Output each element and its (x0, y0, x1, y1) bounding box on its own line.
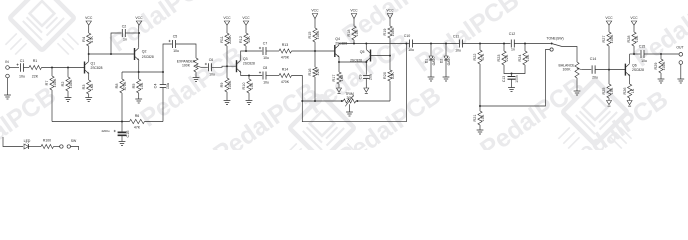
junction C16 node (121, 121, 123, 123)
wire Q6 collector to C15 (630, 53, 641, 55)
svg-text:100K: 100K (182, 63, 191, 67)
ground IN sleeve (4, 95, 11, 99)
wire R100 to SW (54, 146, 60, 148)
wire C5 to pot (176, 44, 196, 58)
ground R3 (85, 98, 92, 102)
resistor R25 (602, 70, 614, 101)
capacitor C5 (169, 35, 179, 54)
wire SW out (71, 147, 79, 151)
ground arrow C9 (364, 88, 369, 92)
wire C8 to R14 (266, 75, 279, 77)
ground R21 (477, 130, 484, 134)
svg-text:10K: 10K (635, 35, 639, 42)
svg-text:C6: C6 (209, 58, 214, 62)
resistor R6 (130, 114, 145, 130)
wire trim rail right (356, 100, 390, 102)
transistor Q4 (335, 37, 348, 58)
svg-text:100K: 100K (662, 61, 666, 70)
capacitor C12 (509, 32, 515, 52)
wire Q3 collector to C7 (246, 50, 262, 52)
svg-text:10K: 10K (140, 82, 144, 89)
capacitor C14 (590, 57, 598, 80)
wire Q2 collector to VCC (138, 25, 140, 48)
svg-text:R13: R13 (282, 43, 288, 47)
svg-text:100K: 100K (391, 27, 395, 36)
wire R14 to detour rail (292, 44, 407, 122)
ground R2 (65, 98, 72, 102)
wire R6 to C4 (145, 121, 164, 123)
svg-text:10K: 10K (526, 54, 530, 61)
capacitor C10 (404, 34, 414, 52)
wire Q1 collector to Q2 base (89, 53, 135, 55)
svg-text:100K: 100K (563, 68, 572, 72)
resistor R21 (473, 106, 485, 130)
capacitor C1 (17, 59, 26, 79)
svg-text:1K: 1K (631, 88, 635, 93)
wire Q2 emitter (138, 60, 140, 72)
svg-text:47K: 47K (90, 36, 94, 43)
junction R2 node (67, 67, 69, 69)
svg-text:VCC: VCC (135, 16, 143, 20)
transistor Q3 (237, 57, 255, 73)
wire C15 to OUT (644, 53, 679, 55)
wire Q4 collector (338, 44, 340, 45)
tone rail wire (480, 50, 550, 107)
capacitor C6 (205, 58, 215, 77)
svg-text:10u: 10u (166, 83, 170, 89)
junction R7 node (51, 67, 53, 69)
svg-text:2SC828: 2SC828 (142, 55, 154, 59)
junction R28 C15 (633, 53, 635, 55)
svg-text:470K: 470K (281, 80, 290, 84)
wire Q3 emitter (241, 72, 263, 75)
junction R10 node (248, 75, 250, 77)
resistor R16 (308, 51, 320, 77)
svg-text:VCC: VCC (223, 16, 231, 20)
junction D1 (430, 43, 432, 45)
svg-text:C12: C12 (509, 32, 515, 36)
svg-text:R18: R18 (347, 30, 351, 37)
svg-text:Q2: Q2 (142, 49, 147, 53)
wire OUT sleeve to ground (680, 64, 682, 79)
svg-text:R27: R27 (602, 36, 606, 43)
svg-text:10K: 10K (250, 82, 254, 89)
resistor R3 (82, 80, 94, 98)
switch SW (60, 139, 77, 148)
svg-text:R10: R10 (242, 83, 246, 90)
capacitor C9 (358, 62, 372, 88)
resistor R26 (623, 84, 635, 101)
svg-text:VCC: VCC (630, 16, 638, 20)
ground D2 (443, 77, 450, 81)
resistor R5 (132, 72, 144, 99)
potentiometer BALANCE (559, 62, 582, 78)
svg-text:22K: 22K (316, 68, 320, 75)
resistor R12 (239, 25, 251, 51)
svg-text:VCC: VCC (242, 16, 250, 20)
svg-text:22K: 22K (32, 75, 39, 79)
wire Q1 emitter (88, 74, 90, 80)
junction detour rail C10 node (405, 43, 407, 45)
svg-text:C5: C5 (173, 35, 178, 39)
resistor R7 (45, 68, 57, 91)
junction R22 (479, 43, 481, 45)
svg-text:R23: R23 (497, 55, 501, 62)
wire Q5 base line (370, 55, 390, 57)
wire Q5 collector (365, 44, 367, 50)
svg-text:R22: R22 (473, 54, 477, 61)
svg-text:100K: 100K (610, 34, 614, 43)
svg-text:C14: C14 (590, 57, 596, 61)
transistor Q5 (350, 50, 370, 63)
junction tone rail (479, 105, 481, 107)
svg-text:R6: R6 (135, 114, 140, 118)
LED D3 (24, 139, 31, 149)
svg-text:1n: 1n (123, 38, 127, 42)
svg-text:10u: 10u (263, 56, 269, 60)
junction Q2 emitter R5 (138, 71, 140, 73)
transistor Q2 (135, 48, 154, 61)
clipping rail wire (413, 43, 460, 45)
wire C12 to switch (514, 43, 550, 45)
junction D2 (445, 43, 447, 45)
wire IN tip to C1 (9, 67, 19, 69)
svg-text:C9: C9 (358, 75, 362, 80)
svg-text:10K: 10K (247, 36, 251, 43)
wire R8 to feedback rail (121, 93, 123, 122)
wire IN sleeve to ground (7, 78, 9, 95)
svg-text:R25: R25 (602, 88, 606, 95)
svg-text:R14: R14 (282, 68, 288, 72)
junction R23 (503, 43, 505, 45)
wire TRIM wiper to ground (349, 104, 351, 112)
junction R29 (660, 53, 662, 55)
wire C5 takeoff (163, 44, 172, 72)
junction R18 (353, 43, 355, 45)
ground C16 (119, 142, 126, 146)
wire LED to R100 (29, 146, 41, 148)
svg-text:10u: 10u (263, 81, 269, 85)
svg-text:C4: C4 (154, 84, 158, 89)
wire C7 to R13 (266, 50, 279, 52)
svg-text:R3: R3 (82, 85, 86, 90)
resistor R17 (332, 62, 344, 88)
diode D1 (424, 44, 435, 78)
capacitor C15 (639, 45, 647, 64)
svg-text:100K: 100K (53, 78, 57, 87)
resistor R4 (82, 25, 94, 54)
svg-text:C11: C11 (453, 35, 459, 39)
svg-text:100K: 100K (228, 80, 232, 89)
resistor R15 (308, 19, 320, 51)
ground arrow R17 (337, 88, 342, 92)
svg-text:10K: 10K (481, 114, 485, 121)
resistor R20 (383, 56, 395, 101)
resistor R29 (654, 54, 666, 79)
svg-text:IN: IN (5, 60, 9, 64)
junction detour trim rail (301, 100, 303, 102)
wire Q6 emitter (629, 76, 631, 84)
wire switch to BALANCE (562, 47, 577, 63)
wire BALANCE to ground (576, 78, 578, 91)
svg-text:2SC828: 2SC828 (243, 61, 255, 65)
svg-text:TONE(SW): TONE(SW) (546, 37, 563, 41)
resistor R14 (279, 68, 292, 85)
ground BALANCE (574, 91, 581, 95)
svg-text:20u: 20u (369, 74, 373, 80)
svg-text:10u: 10u (19, 75, 25, 79)
ground OUT (677, 79, 684, 83)
wire C2 to Q2 collector (125, 32, 139, 34)
svg-text:10u: 10u (641, 59, 647, 63)
transistor Q1 (85, 62, 103, 75)
svg-text:1n: 1n (511, 48, 515, 52)
resistor R23 (497, 44, 510, 74)
svg-text:20u: 20u (592, 76, 598, 80)
wire EXPANDER to ground (195, 72, 197, 78)
wire emitter join (339, 61, 366, 63)
switch TONE(SW) (546, 37, 563, 51)
svg-text:100n: 100n (515, 75, 519, 83)
junction R11 R9 node (226, 65, 228, 67)
svg-text:OA90: OA90 (432, 57, 436, 66)
resistor R1 (29, 59, 42, 79)
svg-text:R4: R4 (82, 37, 86, 42)
svg-text:VCC: VCC (85, 16, 93, 20)
svg-text:SW: SW (71, 139, 77, 143)
svg-text:470K: 470K (281, 56, 290, 60)
wire C14 to Q6 base (595, 69, 625, 71)
junction Q5 collector (365, 43, 367, 45)
svg-text:C2: C2 (122, 25, 127, 29)
svg-text:20K: 20K (346, 96, 353, 100)
trimmer TRIM (341, 92, 359, 106)
svg-text:R29: R29 (654, 63, 658, 70)
ground arrow R26 (627, 101, 632, 105)
svg-text:R100: R100 (43, 139, 51, 143)
svg-text:R5: R5 (132, 84, 136, 89)
svg-text:1K8: 1K8 (90, 84, 94, 91)
resistor R10 (242, 76, 254, 101)
svg-text:C16: C16 (126, 131, 130, 138)
transistor Q6 (625, 64, 644, 77)
svg-text:R15: R15 (308, 32, 312, 39)
svg-text:OUT: OUT (676, 46, 683, 50)
svg-text:VCC: VCC (350, 9, 358, 13)
wire Q3 collector (241, 51, 246, 60)
svg-text:C15: C15 (639, 45, 645, 49)
svg-text:Q5: Q5 (360, 50, 365, 54)
svg-text:R7: R7 (45, 81, 49, 86)
svg-text:100K: 100K (316, 30, 320, 39)
svg-text:10u: 10u (408, 48, 414, 52)
svg-text:R19: R19 (383, 29, 387, 36)
watermark (0, 0, 688, 191)
feedback rail wire (52, 121, 130, 123)
svg-text:D2: D2 (439, 59, 443, 63)
resistor R11 (220, 25, 232, 66)
svg-text:R16: R16 (308, 69, 312, 76)
svg-text:C7: C7 (263, 42, 268, 46)
junction C13 node (511, 73, 513, 75)
junction Q4 base R15 (314, 50, 316, 52)
input jack IN (5, 60, 9, 78)
resistor R24 (512, 44, 530, 74)
ground EXPANDER (193, 78, 200, 82)
trim rail wire (302, 100, 343, 102)
resistor R28 (627, 25, 639, 54)
svg-text:10u: 10u (455, 49, 461, 53)
junction Q5 base R19 R20 (389, 55, 391, 57)
junction R27 R25 (608, 69, 610, 71)
svg-text:VCC: VCC (311, 9, 319, 13)
svg-text:15K: 15K (610, 87, 614, 94)
capacitor C16 (101, 122, 130, 142)
capacitor C7 (259, 42, 269, 61)
resistor R19 (383, 19, 395, 56)
svg-text:470K: 470K (123, 81, 127, 90)
resistor R18 (347, 19, 359, 44)
wire R1 to Q1 base (42, 67, 85, 69)
capacitor C11 (453, 35, 463, 53)
wire Q4 emitter (338, 57, 340, 62)
wire C11 to C12 (463, 43, 511, 45)
resistor R100 (41, 139, 54, 149)
svg-text:OA90: OA90 (447, 57, 451, 66)
svg-text:VCC: VCC (605, 16, 613, 20)
junction C9 emitter (365, 61, 367, 63)
svg-text:R9: R9 (220, 83, 224, 88)
wire emitter rail (122, 71, 163, 73)
resistor R13 (279, 43, 292, 60)
wire C2 branch up (111, 33, 122, 54)
resistor R2 (61, 68, 73, 98)
resistor R8 (115, 72, 127, 93)
svg-text:D1: D1 (424, 59, 428, 63)
wire C1 to R1 (24, 67, 30, 69)
wire R22 to tone rail (479, 64, 481, 106)
ground C13 (508, 88, 515, 92)
svg-text:R28: R28 (627, 36, 631, 43)
wire wiper to C14 (582, 69, 592, 71)
ground R5 (135, 99, 142, 103)
ground R9 (224, 101, 231, 105)
svg-text:22K: 22K (391, 72, 395, 79)
ground TRIM (346, 112, 353, 116)
svg-text:1K8: 1K8 (340, 75, 344, 82)
svg-text:2200u: 2200u (101, 129, 109, 133)
wire LED feed (3, 137, 23, 147)
wire wiper to C6 (201, 66, 208, 68)
junction Q3 collector R12 (245, 50, 247, 52)
wire Q6 collector (629, 54, 631, 63)
collector rail wire (339, 43, 406, 45)
svg-text:22K: 22K (505, 54, 509, 61)
junction C2 branch (110, 53, 112, 55)
svg-text:100K: 100K (69, 79, 73, 88)
svg-text:R24: R24 (518, 55, 522, 62)
diode D2 (439, 44, 450, 78)
svg-text:C10: C10 (404, 34, 410, 38)
svg-text:R17: R17 (332, 75, 336, 82)
potentiometer EXPANDER (177, 58, 201, 72)
svg-text:R8: R8 (115, 84, 119, 89)
resistor R22 (473, 44, 485, 65)
junction R24 (524, 43, 526, 45)
junction R17 emitter (338, 61, 340, 63)
output jack OUT (676, 46, 683, 65)
capacitor C8 (259, 66, 269, 85)
capacitor C13 (502, 74, 519, 88)
svg-text:R26: R26 (623, 88, 627, 95)
svg-text:2SC828: 2SC828 (91, 66, 103, 70)
ground R29 (658, 79, 665, 83)
svg-text:10u: 10u (173, 49, 179, 53)
svg-text:R1: R1 (33, 59, 38, 63)
capacitor C4 (154, 72, 171, 122)
svg-text:LED: LED (24, 139, 31, 143)
wire rail to C10 (406, 43, 409, 45)
wire Q1 collector (88, 54, 90, 61)
ground arrow R25 (607, 101, 612, 105)
svg-text:R2: R2 (61, 82, 65, 87)
svg-text:10u: 10u (209, 73, 215, 77)
junction Q2 collector VCC (138, 32, 140, 34)
svg-text:10K: 10K (355, 29, 359, 36)
capacitor C2 (122, 25, 127, 42)
svg-text:47K: 47K (481, 53, 485, 60)
junction C4 takeoff (162, 71, 164, 73)
wire C6 to Q3 base (212, 66, 237, 67)
ground D1 (428, 77, 435, 81)
svg-text:2SC828: 2SC828 (632, 68, 644, 72)
svg-text:R21: R21 (473, 115, 477, 122)
ground R10 (246, 101, 253, 105)
junction Q1 collector node (88, 53, 90, 55)
svg-text:C13: C13 (502, 76, 506, 82)
resistor R27 (602, 25, 614, 69)
wire R13 to Q4 base (292, 50, 335, 52)
svg-text:R11: R11 (220, 36, 224, 43)
svg-text:VCC: VCC (386, 9, 394, 13)
svg-text:R20: R20 (383, 72, 387, 79)
wire R7 to feedback rail (51, 90, 53, 122)
svg-text:R12: R12 (239, 36, 243, 43)
wire Q5 emitter (365, 61, 367, 63)
svg-text:220K: 220K (228, 35, 232, 44)
svg-text:C8: C8 (263, 66, 268, 70)
resistor R9 (220, 66, 232, 100)
svg-text:47K: 47K (134, 126, 141, 130)
junction R16 trim rail (314, 100, 316, 102)
svg-text:C1: C1 (20, 59, 25, 63)
wire R16 to trim rail (314, 77, 316, 101)
